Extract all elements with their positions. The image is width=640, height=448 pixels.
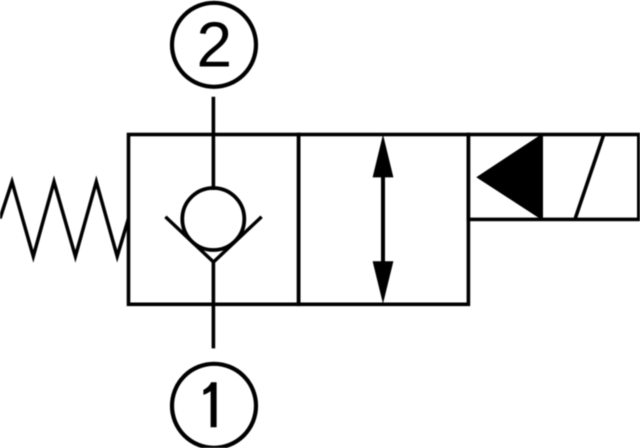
port 2 circle xyxy=(172,3,256,87)
valve body right cell (flow position) xyxy=(299,135,469,305)
check valve poppet circle xyxy=(182,188,244,250)
check valve seat V xyxy=(165,217,261,262)
solenoid triangle (filled, pointing left) xyxy=(479,136,542,218)
flow arrow shaft (double-headed arrow) xyxy=(381,175,385,262)
solenoid slash xyxy=(575,134,604,219)
wire: check valve to port 1 xyxy=(212,262,216,348)
svg-text:2: 2 xyxy=(197,9,233,81)
flow arrow head up xyxy=(373,135,394,178)
valve body left cell (check valve position) xyxy=(129,135,299,305)
solenoid box xyxy=(468,135,638,220)
port 1 circle xyxy=(172,364,256,448)
port 1 label "1" xyxy=(203,382,216,427)
flow arrow head down xyxy=(373,261,394,304)
spring (return spring, zigzag) xyxy=(0,182,129,256)
wire: port 2 to check valve xyxy=(212,97,216,190)
